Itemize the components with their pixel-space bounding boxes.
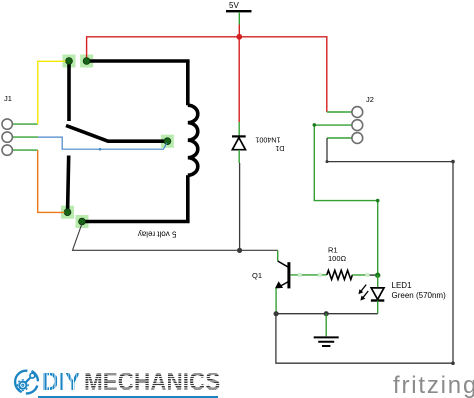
diode D1 symbol — [232, 136, 246, 149]
wire ground stub (green) — [325, 314, 327, 337]
wire yellow riser to relay pin1 — [38, 61, 66, 124]
svg-text:100Ω: 100Ω — [328, 254, 347, 263]
relay left side lower — [68, 156, 69, 211]
label LED1 Green (570nm) — [392, 281, 447, 300]
DIYMECHANICS logo — [9, 366, 11, 398]
wire junction to J2 pin1 (red) — [239, 37, 326, 112]
wire junction to relay coil top (red) — [87, 37, 240, 59]
node green bend at J2 pin2 — [313, 123, 317, 127]
LED light arrows — [361, 285, 366, 292]
connector J2 circle pin3 — [352, 133, 363, 144]
pin highlight relay pole pin — [161, 135, 174, 148]
wire base to R1 (green) — [290, 274, 326, 276]
logo underline — [38, 396, 218, 398]
node blue bendpoint — [99, 148, 102, 151]
wire J2 pin3 stub (green) — [327, 137, 352, 139]
node: 5V junction — [236, 34, 242, 40]
relay pole pin dot — [164, 138, 171, 145]
wire J1 pin2 to relay pole (blue) — [38, 137, 167, 149]
pin highlight relay pin1 top — [63, 55, 76, 68]
svg-text:5 volt relay: 5 volt relay — [138, 230, 177, 239]
wire emitter down (green) — [275, 288, 277, 314]
relay left side upper — [67, 61, 71, 121]
wire junction to LED (green) — [377, 275, 379, 287]
relay bottom pin dot 1 — [64, 209, 71, 216]
node dark bend below J2 pin3 — [326, 160, 329, 163]
wire orange to relay bottom pin1 — [38, 150, 65, 212]
wire J2 pin2 net (green) — [314, 125, 377, 275]
wire R1 to junction (green then dark) — [352, 274, 369, 276]
relay body: top horizontal — [87, 59, 190, 63]
resistor R1 zigzag — [327, 270, 353, 279]
logo gear-and-key icon — [12, 367, 42, 398]
relay switch blade — [66, 126, 167, 142]
wire collector drop (green) — [277, 250, 279, 261]
transistor Q1 bar — [287, 262, 290, 288]
svg-text:fritzing: fritzing — [393, 372, 474, 398]
connector J2 circle pin1 — [352, 107, 363, 118]
svg-text:Green (570nm): Green (570nm) — [392, 291, 447, 300]
transistor Q1 collector lead — [278, 261, 289, 267]
connector J1 circle pin1 — [2, 119, 12, 129]
transistor Q1 emitter lead with arrow — [275, 281, 289, 288]
connector J1 circle pin3 — [2, 145, 12, 155]
relay pin dot 2 — [83, 58, 90, 65]
node junction diode/relay/collector — [237, 248, 242, 253]
pin mark R1 right lead — [365, 273, 369, 277]
connector J1 circle pin2 — [2, 132, 12, 142]
relay right side lower — [186, 175, 190, 221]
svg-text:D1: D1 — [275, 144, 284, 153]
relay bottom pin dot 2 — [79, 218, 86, 225]
wire J2 pin3 net (dark) right side loop — [276, 138, 453, 363]
wire red end to J2 pin1 (green) — [327, 111, 352, 113]
pin mark base wire b — [318, 273, 322, 277]
wire junction down to diode (red then green) — [238, 37, 240, 137]
node dark bend right bottom — [451, 361, 455, 365]
pin mark base wire a — [298, 273, 302, 277]
wire 5V bar to junction (green then red) — [238, 12, 240, 37]
pin highlight relay bottom pin2 — [76, 215, 89, 228]
relay coil (4 bumps) — [188, 105, 198, 175]
svg-text:J2: J2 — [366, 95, 374, 104]
node emitter junction — [274, 311, 279, 316]
wire relay bottom pin2 to base junction (dark) — [73, 224, 278, 251]
pin highlight relay bottom pin1 — [61, 206, 74, 219]
node green bend at top of LED column — [376, 199, 380, 203]
relay bottom horizontal — [82, 220, 190, 224]
node R1/LED junction — [375, 273, 380, 278]
node dark bend right top — [451, 160, 455, 164]
connector J2 circle pin2 — [352, 120, 363, 131]
relay pin dot 1 — [66, 58, 73, 65]
svg-text:1N4001: 1N4001 — [255, 136, 280, 145]
relay right side upper — [186, 61, 190, 105]
wire J1 pin3 (green) — [12, 149, 37, 151]
pin highlight relay pin2 top — [80, 55, 93, 68]
wire diode anode down (green then dark) — [238, 150, 240, 251]
wire LED to bottom rail (green) — [377, 301, 379, 314]
logo MECHANICS text — [84, 373, 220, 392]
logo DIY text — [42, 373, 80, 392]
svg-text:5V: 5V — [229, 1, 239, 10]
power symbol 5V bar — [226, 1, 252, 12]
node ground tap junction — [324, 311, 329, 316]
wire J1 pin2 (green) — [12, 136, 38, 138]
svg-text:Q1: Q1 — [252, 271, 262, 280]
wire emitter rail (dark) — [276, 313, 378, 315]
wire J1 pin1 to yellow riser (green) — [12, 123, 37, 125]
LED LED1 symbol — [358, 285, 384, 301]
ground symbol — [314, 337, 339, 346]
label R1 100ohm — [328, 246, 347, 264]
svg-text:J1: J1 — [4, 94, 12, 103]
svg-text:LED1: LED1 — [392, 281, 413, 290]
